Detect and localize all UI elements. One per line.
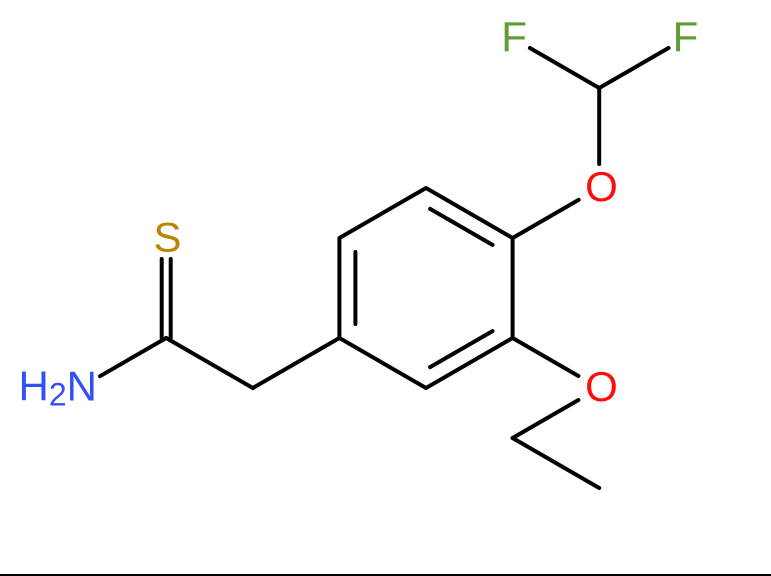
wire: ring to upper O xyxy=(513,200,579,238)
wire: ring to lower O xyxy=(513,338,579,376)
svg-text:O: O xyxy=(585,363,618,410)
svg-text:F: F xyxy=(501,13,527,60)
benzene ring C1-C6 xyxy=(339,188,512,388)
wire: ring to CH2 xyxy=(253,338,340,388)
aromatic double bond inner line (bottom-right edge) xyxy=(430,331,492,367)
double bond C=S line 2 xyxy=(169,259,173,338)
wire: CHF2 carbon to F2 xyxy=(599,48,668,88)
wire: upper O to CHF2 carbon xyxy=(597,88,601,164)
svg-text:F: F xyxy=(673,13,699,60)
wire: ethyl CH2 to CH3 xyxy=(513,438,600,488)
svg-text:S: S xyxy=(153,213,181,260)
wire: lower O to ethyl CH2 xyxy=(513,400,579,438)
bottom border line xyxy=(0,574,771,576)
aromatic double bond inner line (top-right edge) xyxy=(430,209,492,245)
aromatic double bond inner line (left edge) xyxy=(353,252,357,324)
double bond C=S line 1 xyxy=(160,259,164,338)
wire: CHF2 carbon to F1 xyxy=(530,48,599,88)
svg-text:O: O xyxy=(585,163,618,210)
wire: NH2 to thioamide carbon xyxy=(100,338,166,376)
wire: CH2 to thioamide carbon xyxy=(166,338,253,388)
